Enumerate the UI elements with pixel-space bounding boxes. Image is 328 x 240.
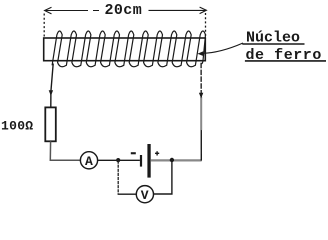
underline 2 [245, 60, 326, 62]
underline 1 [242, 43, 304, 45]
wire battery to right corner [151, 159, 202, 161]
voltmeter branch right [154, 161, 172, 195]
ammeter A1 [80, 152, 97, 169]
dashed extension line left [43, 14, 45, 38]
dashed extension line right [205, 13, 207, 39]
iron core rectangle [44, 38, 206, 61]
svg-text:V: V [141, 188, 149, 203]
leader arrowhead [197, 51, 203, 56]
resistor R 100ohm [45, 107, 56, 141]
svg-text:A: A [85, 154, 93, 169]
junction dot left (voltmeter tap) [116, 158, 120, 162]
battery negative plate (short) [140, 155, 142, 167]
svg-text:100Ω: 100Ω [1, 118, 33, 133]
leader line to core label [203, 43, 244, 53]
wire left (coil to resistor) [51, 64, 53, 108]
inductor coil L1 (11 turns) [52, 31, 205, 67]
voltmeter branch left [117, 161, 119, 195]
plus sign [155, 151, 159, 155]
minus sign [131, 152, 136, 154]
current arrow on right wire [199, 93, 203, 99]
wire right vertical (coil to bottom) [200, 63, 202, 95]
wire resistor bottom to ammeter [50, 141, 80, 160]
junction dot right [170, 158, 174, 162]
voltmeter V1 [136, 186, 153, 203]
current arrow on left wire [49, 90, 53, 96]
gray portion of right wire [200, 97, 202, 130]
battery positive plate (long) [147, 144, 150, 178]
dimension line 20cm [45, 7, 207, 14]
wire ammeter to battery [98, 159, 140, 161]
svg-text:20cm: 20cm [105, 2, 143, 19]
